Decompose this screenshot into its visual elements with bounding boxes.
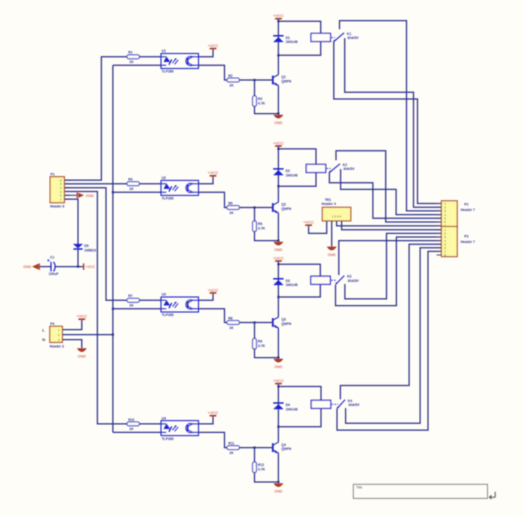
wire K4 NC contact to P3 pin6 [346, 248, 442, 423]
junction common bus row3 [112, 308, 114, 310]
wire diode branch row 1 [277, 21, 279, 55]
wire K1 COM contact to P2 pin1 [334, 41, 442, 204]
svg-text:R6: R6 [258, 222, 262, 226]
resistor R9 [253, 339, 266, 350]
wire base row 4 [239, 447, 272, 449]
power +VCC opto row 2 [208, 170, 219, 176]
wire R10 to opto row 4 [140, 423, 162, 425]
wire pull-down top row 3 [254, 323, 256, 339]
node collector row 1 [277, 54, 279, 56]
node emitter row 3 [277, 357, 279, 359]
wire K3 NC contact to P3 pin2 [345, 233, 442, 299]
wire pull-down bottom row 3 [255, 349, 279, 358]
common bus (opto cathode return) [112, 65, 114, 432]
svg-text:+VCC: +VCC [76, 314, 87, 319]
svg-text:C1: C1 [50, 256, 54, 260]
resistor R5 [227, 201, 239, 214]
wire TR1 pin1 to +VCC [309, 221, 327, 234]
svg-text:30A/5V: 30A/5V [348, 279, 360, 283]
title block [353, 484, 487, 498]
power +VCC P4 [76, 314, 87, 320]
resistor R11 [227, 442, 239, 455]
wire P1 pin5 to R4 (row2 top input) [64, 183, 127, 185]
ground power entry [23, 263, 39, 269]
wire P4 pin2 to common bus [62, 334, 113, 336]
capacitor C1 [47, 256, 58, 277]
junction common bus P4 [112, 334, 114, 336]
wire GND to C1 [39, 266, 51, 268]
svg-text:30A/5V: 30A/5V [348, 403, 360, 407]
wire row3 bottom input [113, 308, 161, 310]
svg-text:1K: 1K [229, 83, 234, 87]
wire TR1 pin4 to P3 pin1 [342, 221, 442, 230]
resistor R6 [253, 221, 266, 232]
wire opto pin3 down row 2 [199, 192, 228, 207]
svg-text:+VCC: +VCC [208, 170, 219, 175]
transistor Q3 [273, 317, 292, 328]
wire C1 to +VCC [55, 266, 83, 268]
wire K2 COM contact to P2 pin5 [329, 172, 441, 218]
relay contact K1 [331, 32, 359, 42]
svg-text:1K: 1K [129, 427, 134, 431]
svg-text:GND: GND [78, 355, 86, 359]
node collector row 3 [277, 296, 279, 298]
node base row 1 [253, 79, 255, 81]
wire coil bottom loop row 1 [278, 42, 320, 56]
svg-text:Header 3: Header 3 [50, 345, 64, 349]
wire P4 pin3 to ground [62, 340, 81, 349]
wire coil bottom loop row 3 [278, 284, 320, 297]
svg-text:1K: 1K [129, 187, 134, 191]
resistor R7 [127, 294, 139, 307]
wire pull-down bottom row 2 [255, 232, 279, 241]
svg-text:4.7K: 4.7K [258, 468, 266, 472]
power +VCC relay row 1 [273, 13, 284, 19]
wire collector row 3 [277, 297, 279, 317]
svg-text:Q3: Q3 [281, 318, 286, 322]
wire VCC stub row 4 [277, 384, 279, 387]
svg-text:Q1: Q1 [281, 75, 286, 79]
wire diode branch row 4 [277, 387, 279, 427]
svg-text:+VCC: +VCC [273, 140, 284, 145]
svg-text:P4: P4 [50, 322, 54, 326]
wire opto pin3 down row 4 [199, 432, 228, 447]
pin stubs P2 [437, 203, 442, 205]
ground P4 [77, 348, 87, 358]
connector P4 [50, 322, 64, 348]
node VCC entry [77, 266, 79, 268]
diode D2 [273, 169, 297, 177]
wire base row 1 [239, 79, 272, 81]
power +VCC opto row 1 [208, 43, 219, 49]
node base row 4 [253, 447, 255, 449]
svg-text:R7: R7 [128, 294, 132, 298]
svg-text:P1: P1 [51, 173, 55, 177]
wire top node to coil row 3 [278, 264, 320, 276]
relay contact K3 [331, 275, 359, 285]
wire coil bottom loop row 4 [278, 408, 321, 426]
svg-text:GND: GND [274, 365, 282, 369]
svg-text:Header 4: Header 4 [322, 202, 336, 206]
diode D4 [273, 403, 297, 411]
svg-text:1K: 1K [229, 451, 234, 455]
node collector row 4 [277, 426, 279, 428]
wire P1 pin4 to R7 (row3 top input) [64, 188, 127, 301]
wire VCC stub row 1 [277, 19, 279, 22]
svg-text:R9: R9 [258, 340, 262, 344]
wire row1 bottom input [113, 64, 161, 66]
svg-text:U3: U3 [162, 293, 166, 297]
opto-coupler U3 [161, 293, 199, 318]
svg-text:R1: R1 [128, 51, 132, 55]
wire top node to coil row 2 [278, 149, 316, 165]
svg-text:1K: 1K [129, 304, 134, 308]
resistor R8 [227, 316, 239, 329]
svg-text:1K: 1K [229, 211, 234, 215]
wire pull-down bottom row 1 [255, 106, 279, 113]
node top row 4 [277, 385, 279, 387]
wire pull-down top row 2 [254, 208, 256, 222]
wire coil bottom loop row 2 [278, 173, 316, 187]
resistor R3 [253, 96, 266, 107]
pin stubs P3 [437, 229, 442, 231]
diode D5 [73, 244, 96, 253]
svg-text:+VCC: +VCC [273, 255, 284, 260]
wire VCC stub row 2 [277, 146, 279, 149]
power +VCC relay row 2 [273, 140, 284, 146]
resistor R4 [127, 178, 139, 191]
svg-text:Header 6: Header 6 [50, 205, 64, 209]
svg-text:TLP280: TLP280 [162, 197, 174, 201]
opto-coupler U4 [161, 416, 199, 441]
svg-text:+VCC: +VCC [208, 43, 219, 48]
power +VCC relay row 4 [273, 378, 284, 384]
power +VCC entry [84, 263, 96, 269]
wire pull-down bottom row 4 [255, 473, 279, 483]
wire K2 NO contact to P2 pin6 [336, 151, 441, 222]
svg-text:+VCC: +VCC [208, 410, 219, 415]
resistor R2 [227, 74, 239, 87]
svg-text:1N4148: 1N4148 [286, 173, 298, 177]
wire pull-down top row 1 [254, 80, 256, 96]
svg-text:GND: GND [23, 265, 31, 269]
svg-text:GND: GND [86, 194, 94, 198]
connector P1 [50, 173, 64, 209]
wire emitter row 4 [277, 453, 279, 482]
wire P1 pin1 down to D5 [64, 199, 78, 244]
svg-text:QNPN: QNPN [281, 322, 291, 326]
svg-text:GND: GND [274, 121, 282, 125]
wire base row 3 [239, 322, 272, 324]
wire top node to coil row 1 [278, 21, 320, 33]
power +VCC TR1 [303, 220, 314, 226]
wire opto pin3 down row 1 [199, 65, 228, 80]
svg-text:4.7K: 4.7K [258, 227, 266, 231]
svg-text:TLP280: TLP280 [162, 313, 174, 317]
wire collector row 1 [277, 55, 279, 74]
node emitter row 2 [277, 240, 279, 242]
relay coil K2 [306, 164, 326, 172]
node top row 3 [277, 263, 279, 265]
wire P1 pin6 to R1 (row1 top input) [64, 57, 127, 180]
wire K4 NO contact to P3 pin5 [340, 244, 441, 399]
power +VCC opto row 3 [208, 287, 219, 293]
node collector row 2 [277, 185, 279, 187]
wire opto pin4 to VCC row 3 [199, 293, 214, 300]
wire TR1 pin2 to ground [331, 221, 333, 247]
connector P2 [441, 201, 475, 228]
wire emitter row 1 [277, 85, 279, 113]
svg-text:Q2: Q2 [281, 203, 286, 207]
wire collector row 2 [277, 186, 279, 202]
svg-text:1K: 1K [229, 326, 234, 330]
opto-coupler U1 [161, 49, 199, 73]
svg-text:+VCC: +VCC [273, 13, 284, 18]
transistor Q4 [273, 442, 292, 453]
svg-text:Title: Title [356, 486, 362, 490]
wire emitter row 3 [277, 328, 279, 358]
svg-text:+VCC: +VCC [273, 378, 284, 383]
svg-text:R3: R3 [258, 97, 262, 101]
svg-text:Header 7: Header 7 [461, 240, 475, 244]
svg-text:R5: R5 [228, 201, 232, 205]
svg-text:+VCC: +VCC [208, 287, 219, 292]
svg-text:P3: P3 [464, 235, 468, 239]
wire diode branch row 3 [277, 264, 279, 297]
node emitter row 1 [277, 113, 279, 115]
svg-text:TLP280: TLP280 [162, 437, 174, 441]
svg-text:U1: U1 [162, 49, 166, 53]
svg-text:R10: R10 [128, 418, 134, 422]
ground row 3 [273, 359, 283, 369]
wire opto pin4 to VCC row 2 [199, 176, 214, 184]
transistor Q1 [273, 75, 292, 86]
junction common bus row2 [112, 191, 114, 193]
wire row4 bottom input [113, 431, 161, 433]
sheet arrow [489, 492, 495, 499]
svg-text:R11: R11 [228, 442, 234, 446]
wire diode branch row 2 [277, 149, 279, 186]
wire opto pin3 down row 3 [199, 309, 228, 323]
wire opto pin4 to VCC row 4 [199, 416, 214, 424]
svg-text:QNPN: QNPN [281, 207, 291, 211]
svg-text:R8: R8 [228, 316, 232, 320]
power +VCC relay row 3 [273, 255, 284, 261]
svg-text:GND: GND [328, 253, 336, 257]
diode D3 [273, 279, 297, 287]
transistor Q2 [273, 202, 292, 213]
wire VCC stub row 3 [277, 261, 279, 264]
wire R1 to opto row 1 [140, 56, 162, 58]
relay coil K3 [311, 276, 331, 284]
node top row 1 [277, 20, 279, 22]
svg-text:1N5819: 1N5819 [84, 248, 96, 252]
wire K3 COM contact to P3 pin3 [336, 237, 442, 306]
relay coil K4 [311, 400, 331, 408]
svg-text:P2: P2 [464, 202, 468, 206]
wire TR1 pin3 to P2 pin7 [337, 221, 442, 226]
ground TR1 [327, 247, 337, 257]
svg-text:GND: GND [274, 248, 282, 252]
resistor R12 [253, 462, 266, 473]
wire D5 to VCC node [77, 249, 79, 266]
svg-text:N: N [42, 337, 45, 342]
node base row 2 [253, 206, 255, 208]
pin stubs P1 [64, 179, 70, 181]
wire K4 COM contact to P3 pin7 [337, 251, 441, 430]
wire base row 2 [239, 207, 272, 209]
wire R4 to opto row 2 [140, 183, 162, 185]
connector P3 [441, 227, 475, 258]
ground row 2 [273, 242, 283, 252]
ground row 1 [273, 115, 283, 125]
svg-text:1 2 3 4: 1 2 3 4 [332, 215, 342, 219]
wire pull-down top row 4 [254, 448, 256, 462]
svg-text:100uF: 100uF [49, 272, 59, 276]
wire K2 NC contact to P2 pin4 [341, 169, 442, 215]
connector TR1 [322, 198, 351, 221]
wire P4 pin1 to +VCC [62, 319, 81, 329]
wire row2 bottom input [113, 191, 161, 193]
relay contact K4 [332, 399, 361, 409]
svg-text:1N4148: 1N4148 [286, 283, 298, 287]
svg-text:4.7K: 4.7K [258, 344, 266, 348]
svg-text:TLP280: TLP280 [162, 70, 174, 74]
ground P1 pin2 [64, 192, 94, 198]
svg-text:+VCC: +VCC [303, 220, 314, 225]
resistor R10 [127, 418, 139, 431]
svg-text:1N4148: 1N4148 [286, 407, 298, 411]
ground row 4 [273, 483, 283, 493]
svg-text:4.7K: 4.7K [258, 101, 266, 105]
relay coil K1 [311, 33, 331, 41]
svg-text:GND: GND [274, 490, 282, 494]
svg-text:Header 7: Header 7 [461, 208, 475, 212]
diode D1 [273, 36, 297, 44]
svg-text:Q4: Q4 [281, 443, 286, 447]
svg-text:30A/5V: 30A/5V [343, 167, 355, 171]
svg-text:QNPN: QNPN [281, 80, 291, 84]
svg-text:R12: R12 [258, 463, 264, 467]
relay contact K2 [327, 163, 356, 173]
svg-text:30A/5V: 30A/5V [347, 36, 359, 40]
wire P1 pin3 to R10 (row4 top input) [64, 192, 127, 424]
wire opto pin4 to VCC row 1 [199, 49, 214, 57]
wire K1 NO contact to P2 pin3 [340, 21, 442, 211]
svg-text:1K: 1K [129, 60, 134, 64]
wire top node to coil row 4 [278, 387, 321, 401]
svg-text:QNPN: QNPN [281, 447, 291, 451]
svg-text:R4: R4 [128, 178, 132, 182]
wire emitter row 2 [277, 213, 279, 241]
wire K1 NC contact to P2 pin2 [345, 38, 442, 207]
node emitter row 4 [277, 481, 279, 483]
wire collector row 4 [277, 427, 279, 443]
svg-text:U4: U4 [162, 416, 166, 420]
wire R7 to opto row 3 [140, 299, 162, 301]
opto-coupler U2 [161, 176, 199, 201]
power +VCC opto row 4 [208, 410, 219, 416]
node top row 2 [277, 148, 279, 150]
svg-text:1N4148: 1N4148 [286, 40, 298, 44]
wire K3 NO contact to P3 pin4 [339, 241, 442, 276]
node base row 3 [253, 321, 255, 323]
resistor R1 [127, 51, 139, 64]
svg-text:R2: R2 [228, 74, 232, 78]
svg-text:U2: U2 [162, 176, 166, 180]
svg-text:+VCC: +VCC [85, 265, 95, 269]
